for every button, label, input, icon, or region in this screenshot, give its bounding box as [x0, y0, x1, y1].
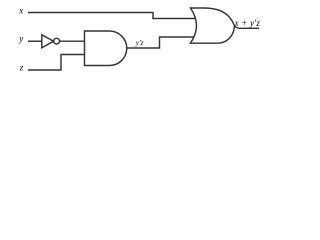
svg-text:y′z: y′z [135, 38, 144, 47]
svg-text:z: z [19, 63, 24, 73]
svg-text:x: x [18, 6, 23, 16]
svg-text:y: y [18, 34, 23, 44]
svg-text:x + y′z: x + y′z [234, 18, 261, 28]
